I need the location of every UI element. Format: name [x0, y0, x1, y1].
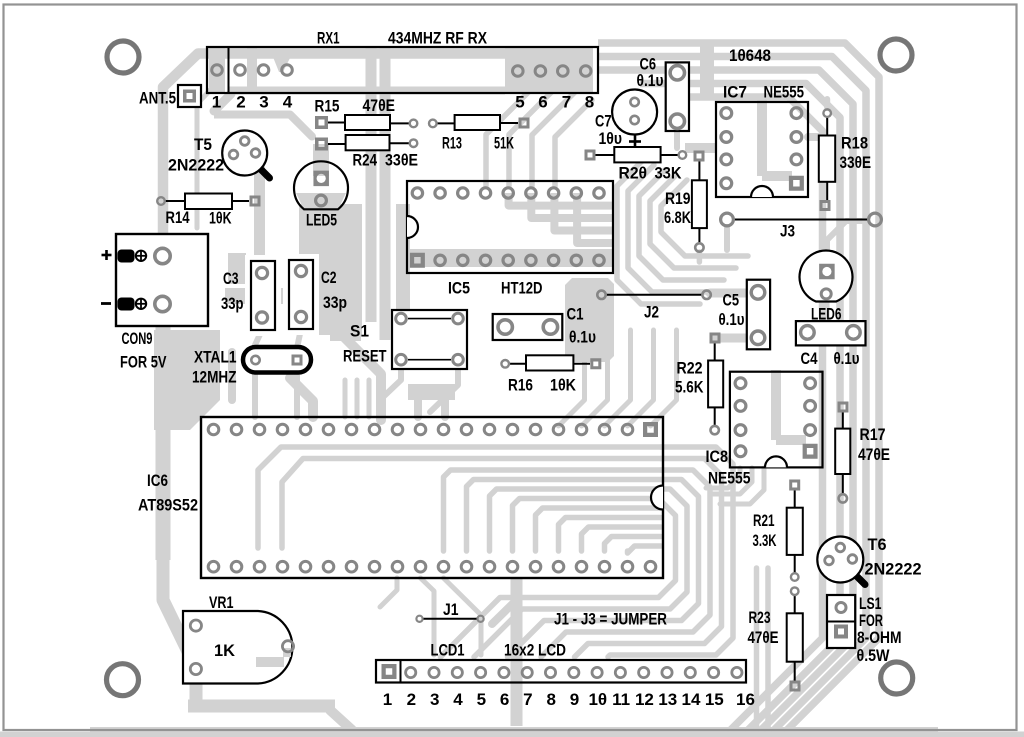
wire — [313, 144, 329, 176]
pad — [639, 667, 649, 677]
pad — [155, 248, 170, 263]
resistor R14 10K — [165, 200, 185, 202]
pad — [415, 424, 426, 435]
resistor R21 3.3K — [794, 490, 796, 508]
wire — [90, 727, 938, 734]
svg-text:R16: R16 — [508, 376, 533, 395]
wire — [661, 180, 748, 256]
svg-text:1θ: 1θ — [588, 690, 607, 709]
pad — [208, 424, 219, 435]
svg-text:8: 8 — [546, 690, 555, 709]
svg-text:R18: R18 — [841, 134, 868, 153]
pad — [250, 196, 261, 207]
svg-text:RESET: RESET — [343, 347, 387, 366]
svg-text:1θυ: 1θυ — [599, 129, 623, 148]
pad — [315, 116, 328, 129]
pad — [157, 197, 165, 205]
svg-text:IC6: IC6 — [147, 471, 168, 490]
wire — [467, 480, 662, 552]
pad — [630, 116, 638, 124]
pad — [412, 188, 422, 198]
wire — [156, 320, 171, 560]
wire — [541, 470, 710, 657]
wire — [508, 480, 699, 658]
mounting hole — [107, 664, 139, 696]
svg-text:47θE: 47θE — [363, 96, 396, 115]
pad — [526, 188, 536, 198]
pad — [543, 320, 557, 334]
mounting hole — [880, 39, 912, 71]
pad — [323, 561, 334, 572]
LED6 — [800, 251, 853, 302]
svg-text:R24: R24 — [353, 151, 378, 170]
resistor R23 470E — [794, 595, 796, 613]
wire — [163, 54, 505, 331]
pad — [396, 313, 407, 324]
mounting hole — [881, 662, 913, 694]
svg-text:15: 15 — [705, 690, 724, 709]
pad — [679, 151, 687, 159]
copper pour — [396, 204, 410, 322]
wire — [724, 227, 730, 250]
pad — [645, 561, 656, 572]
wire — [474, 489, 687, 657]
plus mark — [102, 254, 112, 257]
svg-text:T5: T5 — [194, 135, 212, 154]
pad — [594, 255, 604, 265]
IC6 AT89S52 DIP-40 — [201, 417, 663, 578]
svg-text:θ.1υ: θ.1υ — [637, 71, 664, 90]
capacitor C5 0.1u — [747, 280, 770, 350]
capacitor C4 0.1u — [796, 321, 866, 345]
svg-text:IC5: IC5 — [448, 279, 470, 298]
wire — [617, 160, 700, 304]
wire — [628, 330, 654, 426]
pad — [869, 213, 882, 226]
pad — [576, 561, 587, 572]
wire — [575, 459, 722, 658]
wire — [197, 85, 215, 104]
pad — [711, 426, 719, 434]
wire — [554, 193, 614, 231]
svg-text:7: 7 — [523, 690, 532, 709]
pad — [416, 616, 422, 622]
wire — [532, 92, 575, 186]
wire — [598, 70, 853, 732]
svg-text:R17: R17 — [860, 425, 886, 444]
svg-text:2: 2 — [407, 690, 416, 709]
svg-text:HT12D: HT12D — [501, 279, 543, 298]
pad — [292, 355, 303, 366]
wire — [509, 193, 614, 206]
pad — [346, 561, 357, 572]
capacitor C3 33p — [251, 261, 275, 330]
pad — [594, 188, 604, 198]
wire — [808, 133, 820, 141]
wire — [444, 578, 482, 655]
pad — [258, 65, 269, 76]
pad — [530, 424, 541, 435]
copper pour — [299, 204, 362, 335]
pad — [721, 108, 732, 119]
RF receiver module RX1 — [207, 47, 598, 93]
pad — [825, 556, 834, 565]
pad — [251, 356, 259, 364]
wire — [195, 107, 200, 228]
pad — [571, 255, 581, 265]
resistor R16 10K — [509, 363, 526, 365]
transistor T6 2N2222 — [856, 576, 865, 585]
svg-text:33K: 33K — [655, 164, 683, 183]
pad — [590, 358, 601, 369]
pad — [277, 424, 288, 435]
svg-text:J1: J1 — [443, 600, 459, 619]
copper pour — [271, 52, 293, 72]
svg-text:3: 3 — [430, 690, 439, 709]
pad — [507, 424, 518, 435]
pad — [805, 425, 816, 436]
pad — [507, 561, 518, 572]
pad — [801, 326, 815, 340]
svg-text:3.3K: 3.3K — [753, 531, 777, 550]
capacitor C1 0.1u — [493, 314, 563, 340]
pad — [735, 401, 746, 412]
pad — [548, 188, 558, 198]
svg-text:5.6K: 5.6K — [675, 378, 704, 397]
svg-text:S1: S1 — [350, 322, 369, 341]
wire — [771, 370, 781, 440]
svg-text:R22: R22 — [677, 359, 703, 378]
resistor R15 470E — [328, 122, 345, 124]
pad — [548, 255, 558, 265]
svg-text:T6: T6 — [868, 535, 887, 554]
capacitor C6 0.1u — [666, 62, 689, 131]
pad — [435, 188, 445, 198]
pad — [571, 188, 581, 198]
svg-text:C7: C7 — [595, 112, 612, 131]
wire — [254, 168, 265, 270]
pad — [805, 401, 816, 412]
wire — [776, 435, 806, 445]
wire — [225, 288, 336, 304]
pad — [597, 291, 605, 299]
wire — [330, 710, 352, 730]
pad — [452, 667, 462, 677]
pad — [791, 154, 802, 165]
reset switch S1 — [392, 310, 467, 369]
wire — [490, 489, 662, 551]
pad — [256, 312, 267, 323]
wire — [367, 380, 372, 417]
LED5 — [294, 161, 348, 209]
pad — [392, 561, 403, 572]
pad — [789, 480, 800, 491]
pad — [499, 667, 509, 677]
resistor R24 330E — [328, 143, 346, 145]
jumper J3 — [733, 219, 869, 221]
wire — [441, 499, 676, 658]
pad — [498, 320, 512, 334]
mounting hole — [107, 41, 139, 73]
pad — [478, 616, 484, 622]
pad — [282, 65, 293, 76]
wire — [720, 468, 764, 504]
svg-text:R2θ: R2θ — [619, 164, 648, 183]
pad — [453, 313, 464, 324]
svg-text:434MHZ RF RX: 434MHZ RF RX — [388, 29, 488, 48]
plus mark C7 — [629, 140, 641, 143]
pad — [732, 667, 742, 677]
pad — [721, 213, 734, 226]
pad — [484, 561, 495, 572]
pad — [235, 65, 246, 76]
pad — [476, 667, 486, 677]
pad — [155, 296, 170, 311]
pad — [599, 424, 610, 435]
svg-text:IC8: IC8 — [706, 447, 729, 466]
svg-text:RX1: RX1 — [317, 29, 340, 48]
wire — [290, 378, 313, 417]
wire — [444, 470, 662, 551]
wire — [252, 372, 258, 417]
pad — [695, 243, 703, 251]
wire — [355, 380, 360, 417]
pad — [709, 667, 719, 677]
wire — [255, 330, 262, 345]
wire — [685, 143, 716, 153]
svg-text:8: 8 — [585, 93, 594, 112]
copper pour — [408, 384, 455, 400]
pad — [458, 255, 468, 265]
pad — [346, 424, 357, 435]
wire — [290, 115, 312, 137]
wire — [628, 546, 662, 553]
pad — [295, 311, 306, 322]
LCD connector LCD1 — [376, 660, 746, 683]
pad — [643, 422, 658, 437]
wire — [343, 380, 348, 417]
wire — [380, 578, 397, 607]
wire — [754, 568, 760, 728]
wire — [258, 447, 661, 548]
wire — [421, 578, 435, 655]
wire — [628, 165, 712, 292]
pad — [791, 132, 802, 143]
wire — [598, 57, 866, 733]
pad — [790, 681, 801, 692]
copper pour — [505, 48, 593, 92]
svg-text:5: 5 — [477, 690, 486, 709]
pad — [585, 150, 596, 161]
svg-text:C4: C4 — [801, 349, 818, 368]
copper pour — [565, 278, 614, 362]
pad — [513, 66, 524, 77]
pad — [710, 333, 721, 344]
svg-text:3: 3 — [259, 93, 268, 112]
pad — [622, 561, 633, 572]
pad — [256, 267, 267, 278]
minus mark — [101, 302, 111, 305]
svg-text:7: 7 — [562, 93, 571, 112]
crystal XTAL1 12MHZ — [243, 347, 311, 373]
svg-text:1: 1 — [383, 690, 392, 709]
wire — [582, 527, 662, 551]
pad — [847, 326, 861, 340]
wire — [639, 170, 724, 280]
wire — [827, 221, 866, 258]
wire — [712, 468, 752, 494]
resistor R18 330E — [826, 117, 828, 136]
wire — [640, 84, 840, 733]
pad — [526, 255, 536, 265]
wire — [605, 537, 662, 552]
wire — [674, 125, 680, 148]
pad — [721, 154, 732, 165]
svg-text:6: 6 — [500, 690, 509, 709]
wire — [605, 330, 631, 426]
svg-text:33p: 33p — [323, 293, 347, 312]
svg-text:C1: C1 — [567, 305, 584, 324]
svg-text:1θK: 1θK — [209, 209, 232, 228]
wire — [697, 252, 703, 262]
svg-text:6.8K: 6.8K — [664, 208, 692, 227]
potentiometer VR1 1K — [183, 611, 292, 684]
wire — [531, 193, 614, 218]
capacitor C7 10u — [612, 90, 657, 135]
pad — [480, 188, 490, 198]
pad — [438, 561, 449, 572]
svg-text:R23: R23 — [749, 608, 771, 627]
pad — [251, 149, 260, 158]
wire — [511, 578, 523, 726]
pad — [751, 286, 765, 300]
pad — [821, 289, 831, 299]
pad — [685, 667, 695, 677]
svg-text:XTAL1: XTAL1 — [194, 348, 237, 367]
pad — [282, 641, 293, 652]
svg-text:ANT.5: ANT.5 — [139, 89, 176, 108]
pad — [458, 188, 468, 198]
pad — [461, 561, 472, 572]
pad — [580, 66, 591, 77]
wire — [228, 352, 236, 400]
pad — [382, 664, 397, 679]
pad — [791, 108, 802, 119]
wire — [536, 508, 662, 551]
pad — [838, 402, 849, 413]
wire — [559, 518, 662, 552]
wire — [513, 499, 662, 552]
pad — [392, 424, 403, 435]
svg-text:1: 1 — [212, 93, 221, 112]
pad — [848, 555, 857, 564]
antenna pad ANT.5 — [178, 85, 201, 107]
pad — [576, 424, 587, 435]
svg-text:LED5: LED5 — [306, 211, 337, 230]
svg-text:2: 2 — [236, 93, 245, 112]
wire — [282, 459, 661, 549]
svg-text:θ.1υ: θ.1υ — [834, 349, 860, 368]
pad — [503, 188, 513, 198]
pad — [406, 667, 416, 677]
copper pour — [330, 292, 361, 341]
pad — [535, 66, 546, 77]
wire — [559, 330, 585, 426]
pad — [702, 291, 710, 299]
pad — [836, 603, 846, 613]
transistor T5 2N2222 — [260, 169, 270, 179]
pad — [501, 360, 509, 368]
pad — [545, 667, 555, 677]
pad — [820, 200, 831, 211]
pad — [453, 354, 464, 365]
wire — [700, 45, 714, 100]
wire — [414, 400, 422, 417]
wire — [441, 400, 449, 417]
svg-text:θ.5W: θ.5W — [857, 646, 891, 665]
wire — [608, 447, 733, 657]
wire — [345, 338, 381, 420]
pad — [295, 265, 306, 276]
copper pour — [409, 249, 614, 267]
pad — [484, 424, 495, 435]
pad — [519, 118, 530, 129]
pad — [313, 171, 329, 187]
svg-text:IC7: IC7 — [723, 83, 747, 102]
pad — [751, 331, 765, 345]
wire — [430, 369, 458, 412]
copper pour — [0, 732, 1024, 737]
pad — [615, 667, 625, 677]
pad — [369, 424, 380, 435]
pad — [592, 667, 602, 677]
pad — [438, 424, 449, 435]
pad — [415, 561, 426, 572]
pad — [599, 561, 610, 572]
copper pour — [296, 193, 346, 210]
pad — [735, 425, 746, 436]
svg-text:16x2 LCD: 16x2 LCD — [504, 641, 566, 660]
pad — [836, 543, 845, 552]
svg-text:AT89S52: AT89S52 — [138, 496, 198, 515]
pad — [789, 176, 804, 191]
svg-text:1θ648: 1θ648 — [729, 46, 771, 65]
pad — [229, 150, 238, 159]
pad — [300, 424, 311, 435]
pad — [503, 255, 513, 265]
svg-text:C2: C2 — [321, 268, 337, 287]
wire — [706, 468, 740, 488]
pad — [819, 264, 835, 280]
IC8 NE555 DIP-8 — [730, 372, 823, 468]
svg-text:J3: J3 — [780, 222, 795, 241]
svg-text:J2: J2 — [644, 303, 659, 322]
pad — [803, 444, 818, 459]
wire — [582, 330, 608, 426]
pad — [190, 663, 201, 674]
wire — [650, 175, 736, 268]
wire — [509, 92, 552, 186]
wire — [297, 329, 301, 348]
wire — [366, 48, 377, 322]
svg-text:C3: C3 — [223, 269, 239, 288]
pad — [231, 424, 242, 435]
pad — [662, 667, 672, 677]
svg-text:33θE: 33θE — [385, 151, 418, 170]
svg-text:12MHZ: 12MHZ — [192, 368, 237, 387]
svg-text:2N2222: 2N2222 — [168, 156, 224, 175]
svg-text:5: 5 — [515, 93, 524, 112]
